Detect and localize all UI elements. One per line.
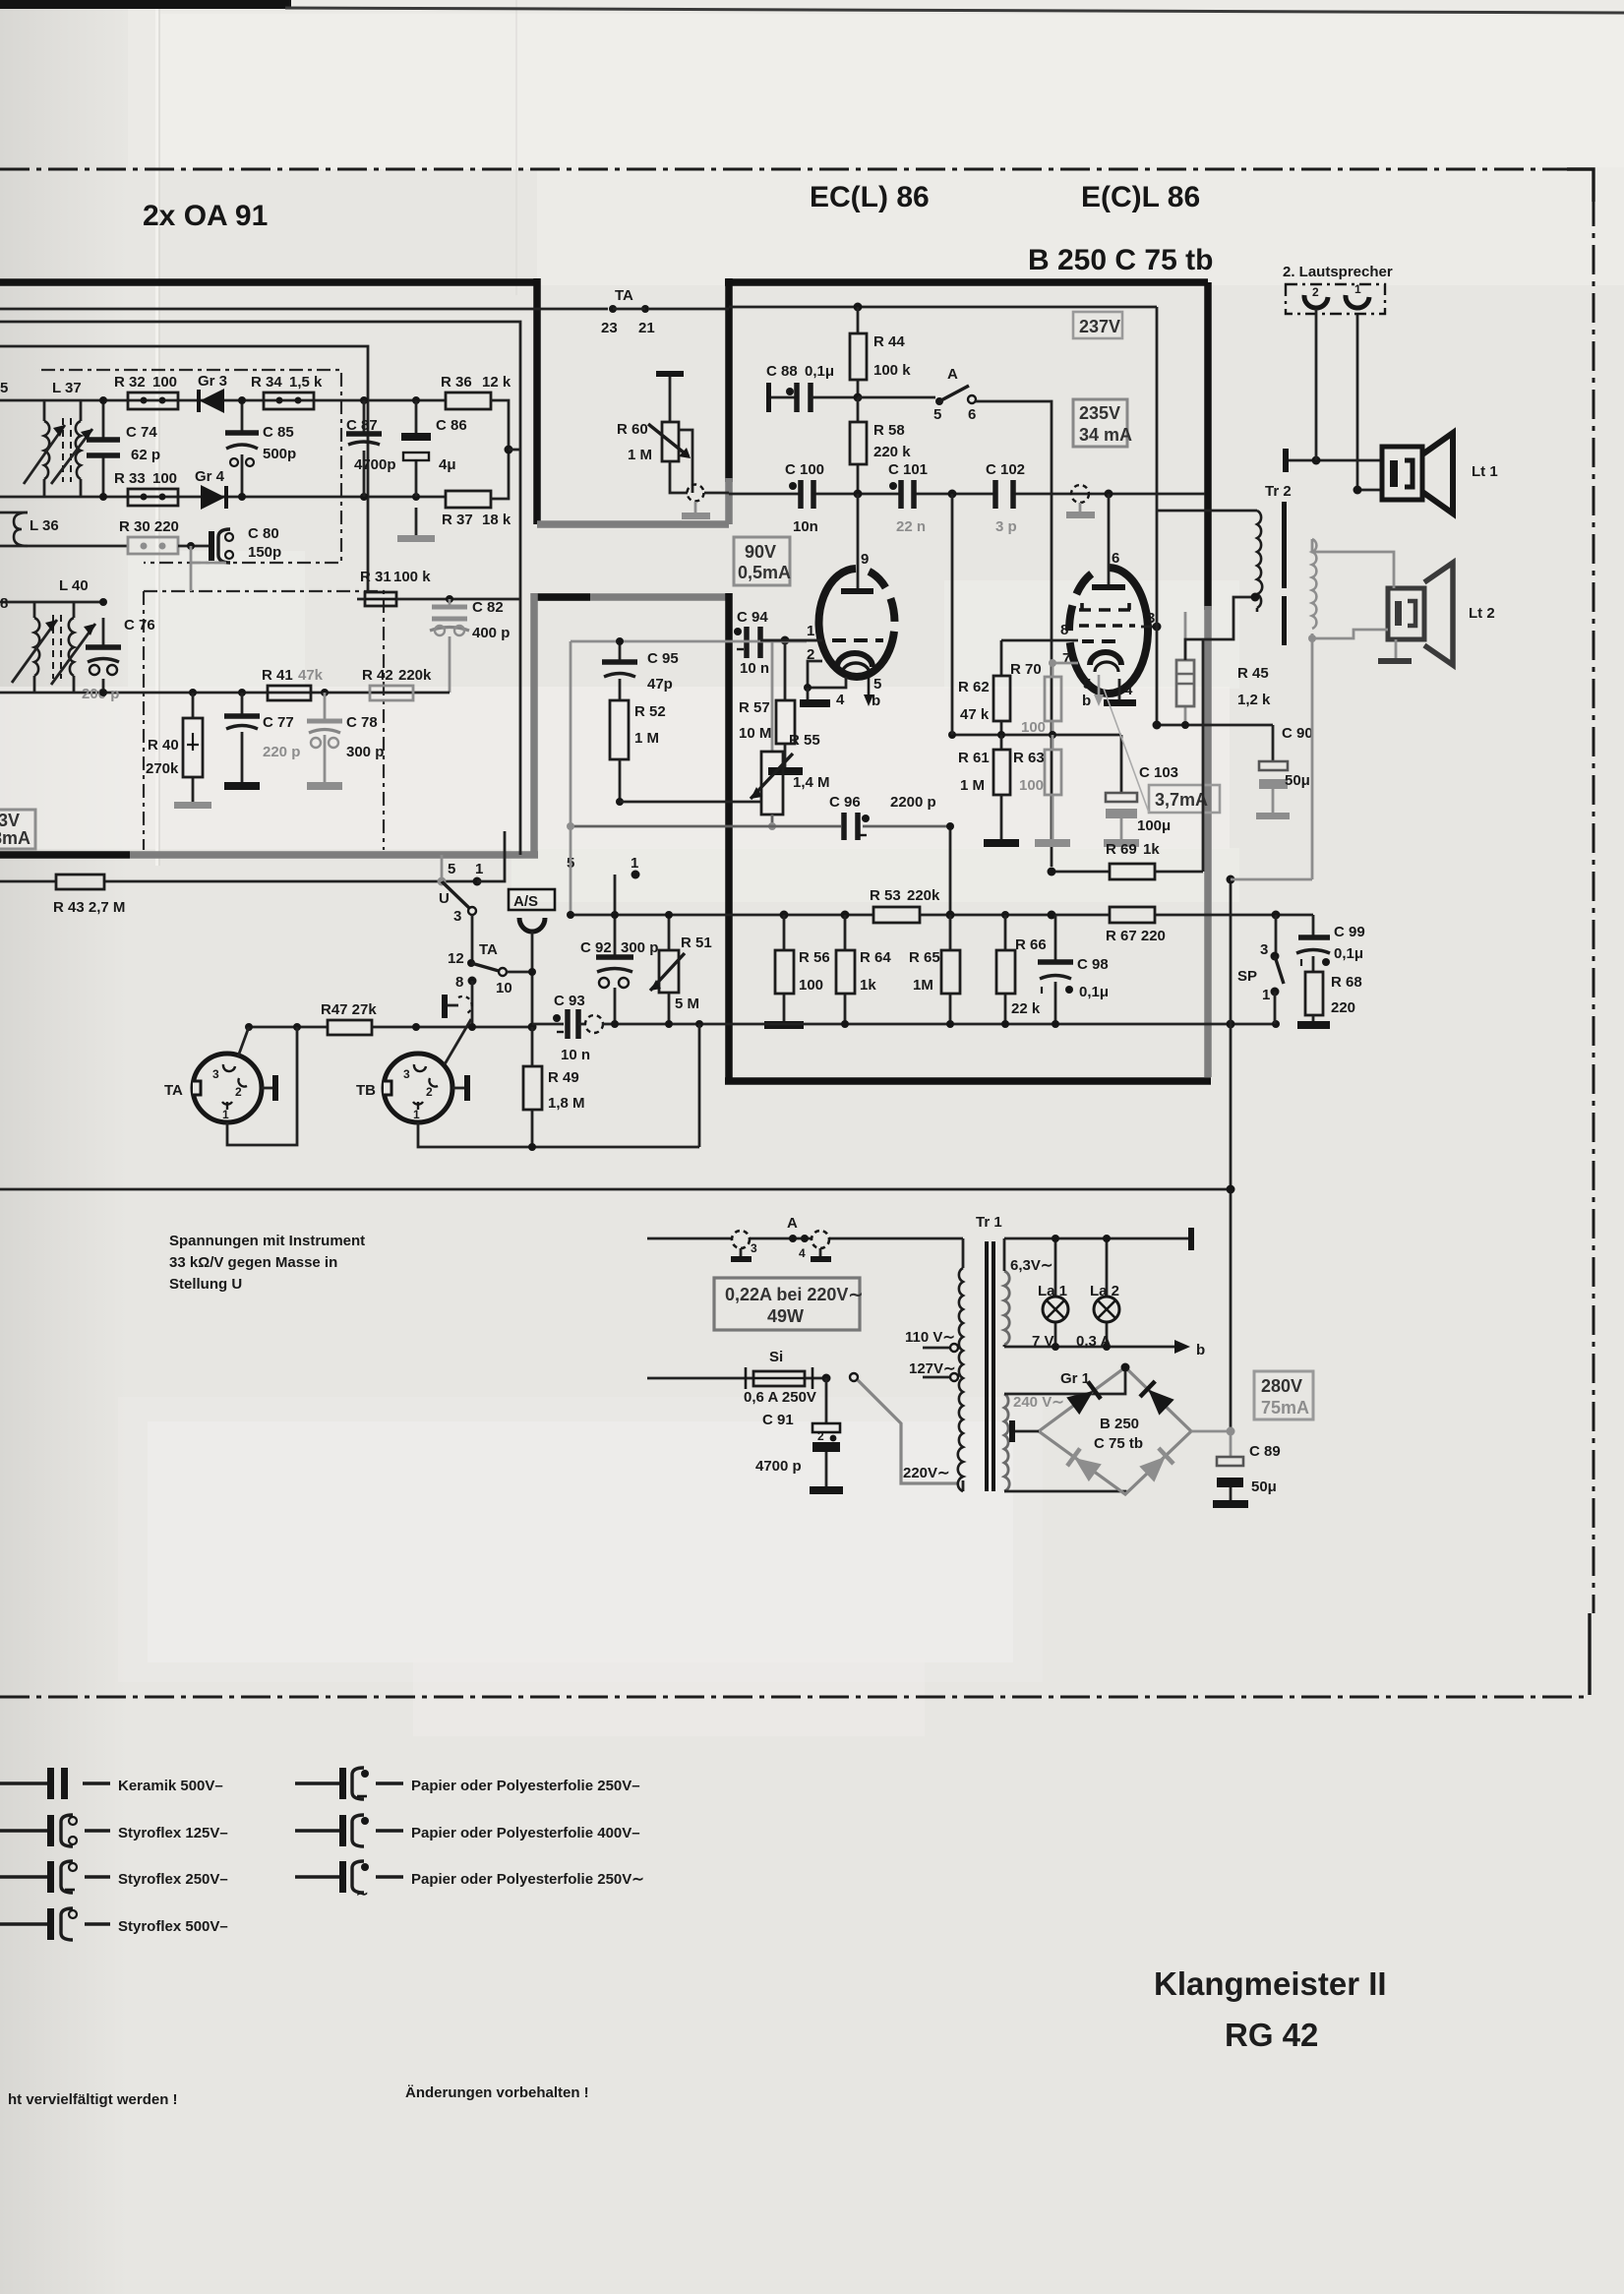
svg-text:C 74: C 74: [126, 424, 157, 441]
svg-text:TA: TA: [164, 1082, 183, 1099]
bus wire to amp with TA contact: [537, 308, 729, 311]
chassis notch bottom gray: [537, 520, 729, 528]
svg-text:90V: 90V: [745, 542, 776, 562]
svg-text:Stellung U: Stellung U: [169, 1276, 242, 1293]
svg-text:270k: 270k: [146, 760, 179, 777]
svg-text:1: 1: [1354, 282, 1361, 296]
legend cap Papier 250V: [295, 1768, 640, 1799]
capacitor C91: [755, 1378, 843, 1494]
plate supply vertical: [1156, 307, 1159, 725]
svg-text:R47 27k: R47 27k: [321, 1001, 377, 1018]
fold crease: [155, 0, 158, 866]
capacitor C102: [986, 461, 1025, 535]
resistor R67: [1106, 907, 1166, 944]
amp chassis box right edge: [1204, 282, 1212, 610]
svg-text:TB: TB: [356, 1082, 376, 1099]
svg-text:R 41: R 41: [262, 667, 293, 684]
svg-text:R 61: R 61: [958, 750, 990, 766]
svg-text:Gr 4: Gr 4: [195, 468, 225, 485]
wire node to rail: [509, 449, 520, 452]
svg-text:220 k: 220 k: [873, 444, 911, 460]
svg-text:0,1μ: 0,1μ: [1334, 945, 1363, 962]
svg-text:R 56: R 56: [799, 949, 830, 966]
svg-text:3: 3: [403, 1067, 410, 1081]
resistor R30: [119, 518, 179, 554]
svg-text:Tr 1: Tr 1: [976, 1214, 1002, 1231]
plug contact A left: [732, 1231, 750, 1248]
diode Gr4: [195, 468, 226, 510]
resistor R41: [262, 667, 324, 700]
wire contact1 up: [477, 831, 505, 881]
resistor R33: [114, 470, 178, 506]
svg-text:SP: SP: [1237, 968, 1257, 985]
svg-text:10n: 10n: [793, 518, 818, 535]
node dots detector: [99, 396, 107, 404]
resistor R31: [357, 569, 431, 606]
HV secondary: [1004, 1394, 1064, 1491]
wire pin8 down to R62: [1000, 640, 1003, 676]
svg-text:Papier oder Polyesterfolie: Papier oder Polyesterfolie 250V–: [411, 1778, 640, 1794]
svg-text:8: 8: [455, 974, 463, 991]
svg-text:1 M: 1 M: [628, 447, 652, 463]
top scan edge: [0, 0, 291, 9]
svg-text:RG 42: RG 42: [1225, 2017, 1318, 2053]
capacitor C90: [1256, 725, 1313, 819]
lamp La2: [1076, 1235, 1119, 1351]
capacitor C94: [734, 609, 822, 677]
current box 3,7mA: [1104, 689, 1220, 813]
heater wires: [1004, 1238, 1190, 1240]
resistor R57: [739, 640, 803, 775]
heater secondary: [1004, 1238, 1053, 1347]
wire R36 R37 bracket: [491, 400, 509, 499]
TB pin terminal: [452, 1087, 464, 1090]
Lt1 lower lead: [1357, 313, 1382, 490]
svg-text:C 100: C 100: [785, 461, 824, 478]
svg-text:1,4 M: 1,4 M: [793, 774, 830, 791]
svg-text:R 69: R 69: [1106, 841, 1137, 858]
svg-text:R 55: R 55: [789, 732, 820, 749]
svg-text:5: 5: [0, 380, 8, 396]
switch A: [858, 366, 1052, 867]
resistor R32: [114, 374, 178, 409]
resistor R47: [321, 1001, 377, 1035]
svg-text:0,3 A: 0,3 A: [1076, 1333, 1111, 1350]
contact 8: [468, 977, 477, 986]
resistor R37: [442, 491, 511, 528]
wire pin3 stub: [1141, 626, 1157, 629]
speaker Lt1: [1382, 433, 1498, 513]
svg-text:100: 100: [1019, 777, 1044, 794]
wire rail to TB loop: [698, 1024, 701, 1147]
svg-text:R 43 2,7 M: R 43 2,7 M: [53, 899, 125, 916]
wire terminal to pot: [669, 377, 672, 422]
svg-text:L 40: L 40: [59, 577, 89, 594]
svg-text:2x OA 91: 2x OA 91: [143, 200, 268, 232]
svg-text:1,2 k: 1,2 k: [1237, 692, 1271, 708]
legend cap Styroflex 250: [0, 1861, 228, 1893]
svg-text:R 70: R 70: [1010, 661, 1042, 678]
svg-text:R 49: R 49: [548, 1069, 579, 1086]
R45 tap on Tr2 primary: [1185, 597, 1255, 660]
capacitor C98: [1038, 915, 1109, 1024]
legend cap Styroflex 500: [0, 1908, 228, 1940]
fuse Si: [647, 1349, 826, 1406]
taps: [923, 1348, 950, 1377]
svg-text:C 102: C 102: [986, 461, 1025, 478]
rectifier output wire: [1191, 1430, 1231, 1433]
svg-text:R 57: R 57: [739, 699, 770, 716]
svg-text:22 n: 22 n: [896, 518, 926, 535]
svg-text:R 34: R 34: [251, 374, 282, 391]
svg-text:100 k: 100 k: [873, 362, 911, 379]
svg-text:1: 1: [475, 861, 483, 877]
switch SP: [1237, 915, 1284, 1024]
svg-text:280V: 280V: [1261, 1376, 1302, 1396]
svg-text:Lt 2: Lt 2: [1469, 605, 1495, 622]
coil L36: [14, 513, 28, 546]
IF transformer L37: [0, 380, 446, 497]
svg-text:47k: 47k: [298, 667, 324, 684]
wire C96 to R53 node: [949, 826, 952, 915]
svg-text:10 M: 10 M: [739, 725, 771, 742]
svg-text:1 M: 1 M: [960, 777, 985, 794]
wire R43 line: [0, 880, 477, 883]
svg-text:R 60: R 60: [617, 421, 648, 438]
tube U2 ECL86 pentode: [1060, 494, 1155, 709]
rectifier AC input terminal: [1013, 1430, 1039, 1433]
voltage box 235V: [1073, 399, 1132, 447]
svg-text:3: 3: [453, 908, 461, 925]
svg-text:Styroflex 125V–: Styroflex 125V–: [118, 1825, 228, 1841]
svg-text:Styroflex 250V–: Styroflex 250V–: [118, 1871, 228, 1888]
TA socket: [164, 1054, 262, 1122]
svg-text:E(C)L 86: E(C)L 86: [1081, 181, 1200, 213]
svg-text:50μ: 50μ: [1285, 772, 1310, 789]
svg-text:110 V∼: 110 V∼: [905, 1329, 955, 1346]
speaker return loop: [1231, 638, 1312, 879]
svg-text:R 51: R 51: [681, 935, 712, 951]
resistor R43: [53, 875, 125, 916]
svg-text:∼: ∼: [356, 1886, 369, 1902]
svg-text:3,7mA: 3,7mA: [1155, 790, 1208, 810]
svg-text:R 66: R 66: [1015, 936, 1047, 953]
svg-text:5: 5: [448, 861, 455, 877]
svg-text:1,5 k: 1,5 k: [289, 374, 323, 391]
svg-text:R 62: R 62: [958, 679, 990, 695]
resistor R52: [610, 700, 666, 806]
TA pin terminal: [262, 1087, 272, 1090]
svg-text:R 53: R 53: [870, 887, 901, 904]
wire R60 to chassis feedthrough: [670, 461, 688, 493]
svg-text:8: 8: [1060, 622, 1068, 638]
resistor R44: [850, 307, 911, 397]
wire R31 to C82: [396, 598, 520, 601]
svg-text:2: 2: [426, 1085, 433, 1099]
svg-text:C 99: C 99: [1334, 924, 1365, 940]
capacitor C99: [1296, 915, 1365, 972]
svg-text:1k: 1k: [1143, 841, 1160, 858]
svg-text:6,3V∼: 6,3V∼: [1010, 1257, 1053, 1274]
resistor R49: [523, 1027, 585, 1147]
wire grid pin8: [1001, 639, 1078, 642]
voltage box 90V: [734, 537, 791, 585]
svg-text:1,8 M: 1,8 M: [548, 1095, 585, 1112]
wire R69 row: [1052, 871, 1203, 874]
svg-text:C 82: C 82: [472, 599, 504, 616]
svg-text:100 k: 100 k: [393, 569, 431, 585]
wire contact8 down: [471, 981, 474, 1027]
svg-text:12: 12: [448, 950, 464, 967]
svg-text:3: 3: [751, 1241, 757, 1255]
svg-text:22 k: 22 k: [1011, 1000, 1041, 1017]
svg-text:R 68: R 68: [1331, 974, 1362, 991]
amp chassis box top edge: [725, 278, 1208, 286]
svg-text:3 p: 3 p: [995, 518, 1017, 535]
mains wire A row: [647, 1238, 963, 1240]
svg-text:R 64: R 64: [860, 949, 891, 966]
primary coil: [962, 1238, 965, 1491]
potentiometer R60: [617, 421, 692, 493]
resistor R56: [764, 915, 830, 1029]
svg-text:C 86: C 86: [436, 417, 467, 434]
TA bottom loop: [227, 1027, 297, 1145]
wire C80 node down: [190, 563, 193, 591]
svg-text:C 80: C 80: [248, 525, 279, 542]
svg-text:R 44: R 44: [873, 333, 905, 350]
rectifier Gr1 bridge: [1004, 1363, 1191, 1495]
capacitor C74: [87, 400, 160, 497]
feedthrough connector: [688, 485, 704, 502]
voltage box 280V: [1254, 1371, 1313, 1419]
capacitor C93: [532, 993, 615, 1063]
svg-text:4: 4: [1124, 682, 1133, 698]
TB pin5 diagonal: [445, 1019, 471, 1064]
resistor R40: [146, 693, 211, 809]
svg-text:Styroflex 500V–: Styroflex 500V–: [118, 1918, 228, 1935]
svg-text:C 78: C 78: [346, 714, 378, 731]
wire C94 to pin1 overlay: [760, 639, 822, 642]
svg-text:75mA: 75mA: [1261, 1398, 1309, 1418]
voltage selector blade: [850, 1373, 858, 1381]
svg-text:240 V∼: 240 V∼: [1013, 1394, 1064, 1411]
svg-text:TA: TA: [479, 941, 498, 958]
resistor R36: [441, 374, 511, 409]
B+ rail vertical: [1230, 879, 1233, 1431]
capacitor C89 electrolytic: [1213, 1431, 1281, 1508]
svg-text:1M: 1M: [913, 977, 933, 994]
svg-text:4: 4: [799, 1246, 806, 1260]
svg-text:3V: 3V: [0, 811, 20, 830]
svg-text:2: 2: [1312, 285, 1319, 299]
svg-text:10 n: 10 n: [561, 1047, 590, 1063]
svg-text:Klangmeister II: Klangmeister II: [1154, 1965, 1387, 2002]
svg-text:U: U: [439, 890, 450, 907]
svg-text:R 37: R 37: [442, 512, 473, 528]
svg-text:300 p: 300 p: [346, 744, 384, 760]
svg-text:4700 p: 4700 p: [755, 1458, 802, 1475]
svg-text:C 96: C 96: [829, 794, 861, 811]
legend cap Papier 400V: [295, 1815, 640, 1846]
resistor R68: [1297, 972, 1362, 1029]
svg-text:b: b: [1196, 1342, 1205, 1358]
svg-text:A/S: A/S: [513, 893, 538, 910]
TB bottom loop: [418, 1122, 699, 1147]
svg-text:B 250 C 75 tb: B 250 C 75 tb: [1028, 244, 1213, 276]
connector 2. Lautsprecher: [1283, 264, 1393, 314]
capacitor C85: [225, 400, 296, 497]
resistor R45: [1176, 612, 1271, 725]
svg-text:4700p: 4700p: [354, 456, 396, 473]
ground under C86 C87: [415, 508, 418, 536]
node row under triode: [952, 734, 1121, 737]
tuner chassis bottom edge: [0, 851, 130, 859]
svg-text:C 93: C 93: [554, 993, 585, 1009]
svg-text:5: 5: [933, 406, 941, 423]
ground under feedthrough: [694, 502, 697, 513]
legend cap Styroflex 125: [0, 1815, 228, 1846]
audio line: [729, 493, 1205, 496]
switch U contact 5: [438, 877, 447, 886]
svg-text:0,1μ: 0,1μ: [805, 363, 834, 380]
resistor R62: [958, 676, 1010, 735]
amp chassis bottom edge: [725, 1077, 1211, 1085]
capacitor C76: [82, 617, 155, 702]
tone network gray loop: [571, 641, 807, 915]
svg-text:R 58: R 58: [873, 422, 905, 439]
svg-text:220k: 220k: [907, 887, 940, 904]
svg-text:1 M: 1 M: [634, 730, 659, 747]
svg-text:50μ: 50μ: [1251, 1479, 1277, 1495]
plug pin terminals: [741, 1248, 820, 1256]
wire R69 to speaker line: [1202, 638, 1205, 872]
resistor R42: [362, 667, 432, 700]
svg-text:C 95: C 95: [647, 650, 679, 667]
svg-text:1: 1: [631, 855, 638, 872]
svg-text:C 76: C 76: [124, 617, 155, 634]
Lt2 wiring: [1312, 539, 1394, 588]
svg-text:Si: Si: [769, 1349, 783, 1365]
svg-text:R 36: R 36: [441, 374, 472, 391]
svg-text:2200 p: 2200 p: [890, 794, 936, 811]
svg-text:12 k: 12 k: [482, 374, 511, 391]
svg-text:La 2: La 2: [1090, 1283, 1119, 1299]
switch TA blade: [467, 959, 475, 967]
svg-text:237V: 237V: [1079, 317, 1120, 336]
IF transformer L40: [0, 577, 450, 693]
svg-text:A: A: [947, 366, 958, 383]
capacitor C101: [888, 461, 928, 535]
svg-text:R 30 220: R 30 220: [119, 518, 179, 535]
svg-text:R 65: R 65: [909, 949, 940, 966]
svg-text:R 40: R 40: [148, 737, 179, 754]
amp chassis left upper edge: [725, 278, 733, 482]
svg-text:0,6 A 250V: 0,6 A 250V: [744, 1389, 816, 1406]
TB socket: [356, 1054, 452, 1122]
svg-text:400 p: 400 p: [472, 625, 510, 641]
svg-text:R 33: R 33: [114, 470, 146, 487]
svg-text:C 89: C 89: [1249, 1443, 1281, 1460]
svg-text:C 85: C 85: [263, 424, 294, 441]
TA pin3 stub: [238, 1027, 249, 1056]
potentiometer R55: [620, 732, 830, 830]
wire from audio junction down: [951, 494, 954, 735]
svg-text:C 101: C 101: [888, 461, 928, 478]
svg-text:33 kΩ/V gegen Masse in: 33 kΩ/V gegen Masse in: [169, 1254, 337, 1271]
svg-text:R 31: R 31: [360, 569, 391, 585]
svg-text:6: 6: [1112, 550, 1119, 567]
amp chassis inner notch top: [534, 593, 729, 601]
svg-text:23: 23: [601, 320, 618, 336]
svg-text:C 87: C 87: [346, 417, 378, 434]
svg-text:C 88: C 88: [766, 363, 798, 380]
svg-text:18 k: 18 k: [482, 512, 511, 528]
TA contact dots: [609, 305, 617, 313]
plug contact A right: [812, 1231, 829, 1248]
svg-text:47 k: 47 k: [960, 706, 990, 723]
svg-text:300 p: 300 p: [621, 939, 658, 956]
svg-text:TA: TA: [615, 287, 633, 304]
capacitor C88: [766, 363, 858, 412]
wire socket2 down: [1315, 309, 1318, 460]
resistor R70: [1010, 659, 1078, 736]
wire AVC line: [0, 346, 368, 592]
svg-text:C 91: C 91: [762, 1412, 794, 1428]
wire contact3 down: [471, 915, 474, 960]
svg-text:220 p: 220 p: [263, 744, 300, 760]
svg-text:220: 220: [1331, 999, 1355, 1016]
svg-text:1: 1: [222, 1108, 229, 1121]
border dash-dot right: [1593, 197, 1595, 1613]
tuner chassis box right edge: [533, 278, 541, 524]
svg-text:34 mA: 34 mA: [1079, 425, 1132, 445]
svg-text:R 42: R 42: [362, 667, 393, 684]
svg-text:5: 5: [1083, 676, 1091, 693]
svg-text:10: 10: [496, 980, 512, 996]
border right bottom solid: [1588, 1613, 1591, 1695]
svg-text:5 M: 5 M: [675, 996, 699, 1012]
svg-text:Spannungen mit Instrument: Spannungen mit Instrument: [169, 1233, 365, 1249]
ground under Lt2: [1395, 639, 1398, 658]
svg-text:R 32: R 32: [114, 374, 146, 391]
svg-text:1: 1: [413, 1108, 420, 1121]
svg-text:Keramik 500V–: Keramik 500V–: [118, 1778, 223, 1794]
svg-text:Lt 1: Lt 1: [1472, 463, 1498, 480]
wire C92 node up: [614, 875, 617, 916]
svg-text:21: 21: [638, 320, 655, 336]
border top-right corner: [1567, 169, 1594, 202]
svg-text:2: 2: [817, 1429, 824, 1443]
border dash-dot top: [0, 168, 1567, 171]
transformer Tr1: [905, 1214, 1002, 1491]
svg-text:ht vervielfältigt werden !: ht vervielfältigt werden !: [8, 2091, 178, 2108]
watermark light bands: [0, 687, 1230, 849]
wire contact10: [507, 971, 532, 974]
svg-text:49W: 49W: [767, 1306, 804, 1326]
legend cap Keramik: [0, 1768, 223, 1799]
svg-text:L 37: L 37: [52, 380, 82, 396]
svg-text:Tr 2: Tr 2: [1265, 483, 1292, 500]
bus wire lower: [0, 322, 520, 855]
svg-text:B 250: B 250: [1100, 1416, 1139, 1432]
svg-text:3: 3: [212, 1067, 219, 1081]
svg-text:R 67 220: R 67 220: [1106, 928, 1166, 944]
svg-text:Gr 1: Gr 1: [1060, 1370, 1090, 1387]
amp chassis left lower edge: [725, 593, 733, 1081]
capacitor C86 electrolytic: [401, 400, 467, 497]
tuner lower left edge: [530, 593, 538, 855]
svg-text:4μ: 4μ: [439, 456, 456, 473]
